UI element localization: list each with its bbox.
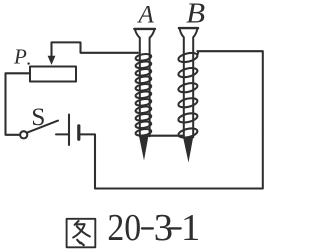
svg-text:B: B: [186, 0, 205, 29]
svg-text:S: S: [31, 102, 45, 131]
svg-text:P: P: [13, 45, 27, 69]
svg-text:3: 3: [154, 207, 173, 249]
svg-text:A: A: [137, 2, 155, 29]
svg-text:20: 20: [107, 207, 141, 249]
svg-text:1: 1: [181, 207, 200, 249]
